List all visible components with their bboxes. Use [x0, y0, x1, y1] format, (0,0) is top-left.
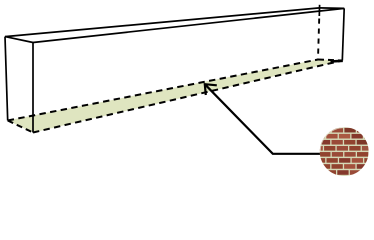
wire: bottom-right corner emphasis at base: [331, 59, 343, 62]
wire: back-left vertical edge: [5, 37, 8, 121]
wire: left-end top edge of wall: [5, 37, 33, 43]
wire: front-top edge of wall: [33, 8, 344, 42]
callout leader line to brick material: [205, 84, 321, 154]
wire: right-end top edge of wall: [320, 7, 345, 9]
wire: back-top edge of wall: [5, 8, 320, 37]
wire: back-right vertical edge hidden part (dashed): [318, 19, 319, 60]
wire: front-left vertical edge: [32, 43, 34, 133]
wire: right-end bottom edge (dashed, hidden): [318, 60, 342, 61]
wire: back-bottom edge (dashed, hidden): [8, 60, 318, 121]
callout arrowhead: [205, 84, 217, 95]
wall base footprint (green strip): [8, 60, 343, 133]
wire: left-end bottom edge (dashed, hidden): [8, 121, 33, 133]
wire: front-right vertical edge: [342, 8, 344, 60]
wire: front-bottom edge (dashed, hidden): [33, 61, 342, 133]
wire: back-right vertical edge visible top stub: [318, 5, 320, 16]
